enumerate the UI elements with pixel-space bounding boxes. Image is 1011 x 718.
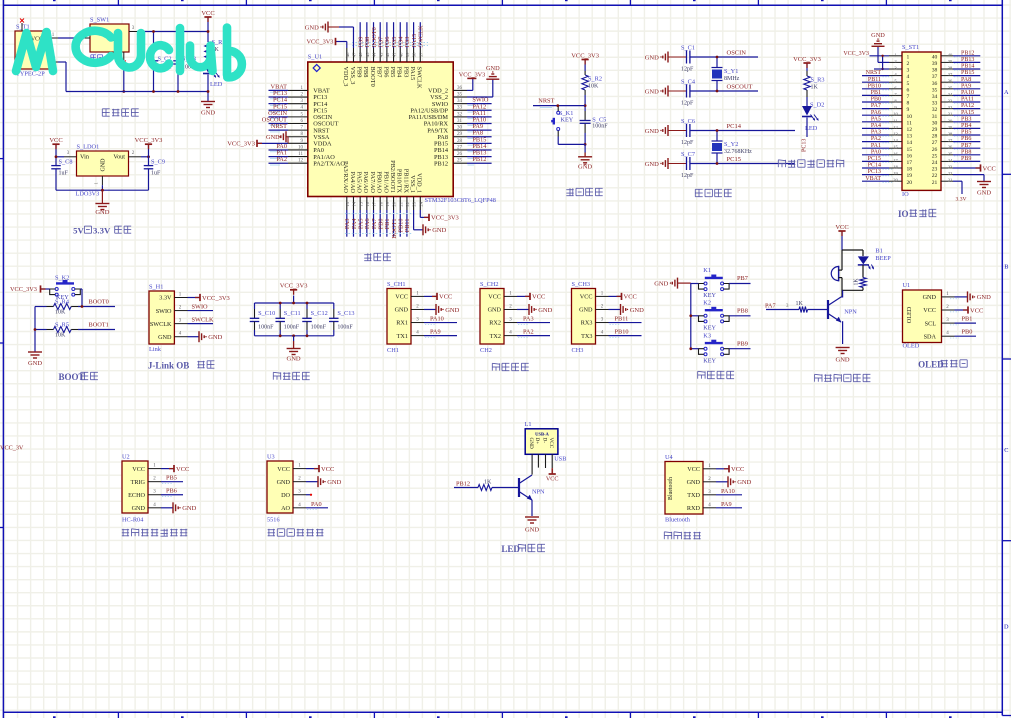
svg-text:14: 14 bbox=[352, 201, 357, 206]
svg-text:12pF: 12pF bbox=[681, 173, 694, 179]
svg-text:PA5/AO: PA5/AO bbox=[356, 172, 363, 194]
svg-text:22: 22 bbox=[405, 201, 410, 206]
svg-text:BEEP: BEEP bbox=[875, 255, 891, 262]
svg-text:PB8: PB8 bbox=[362, 67, 369, 78]
svg-text:GND: GND bbox=[528, 438, 534, 449]
svg-text:C: C bbox=[1004, 447, 1008, 454]
svg-text:OSCOUT: OSCOUT bbox=[727, 84, 753, 91]
svg-text:KEY: KEY bbox=[703, 324, 716, 331]
svg-text:18: 18 bbox=[907, 167, 913, 173]
svg-text:PA6: PA6 bbox=[871, 110, 881, 116]
svg-text:1uF: 1uF bbox=[151, 171, 161, 177]
svg-text:12pF: 12pF bbox=[681, 101, 694, 107]
svg-text:S_C7: S_C7 bbox=[681, 151, 695, 158]
svg-text:K2: K2 bbox=[703, 299, 711, 306]
svg-text:PB5: PB5 bbox=[389, 67, 396, 78]
svg-text:VCC: VCC bbox=[687, 466, 700, 473]
svg-text:16: 16 bbox=[365, 201, 370, 206]
svg-text:PB2/BOOT1: PB2/BOOT1 bbox=[389, 160, 396, 193]
svg-text:PB1: PB1 bbox=[962, 316, 973, 323]
svg-text:GND: GND bbox=[101, 158, 107, 172]
svg-text:U1: U1 bbox=[903, 282, 911, 289]
svg-text:PA7: PA7 bbox=[765, 303, 776, 310]
svg-text:3.3V: 3.3V bbox=[159, 295, 172, 302]
svg-text:19: 19 bbox=[893, 171, 898, 176]
svg-text:S_CH3: S_CH3 bbox=[572, 281, 591, 288]
svg-text:KEY: KEY bbox=[703, 357, 716, 364]
svg-text:18: 18 bbox=[893, 165, 898, 170]
svg-text:27: 27 bbox=[948, 138, 953, 143]
svg-text:PB7: PB7 bbox=[737, 275, 748, 282]
svg-text:PB8: PB8 bbox=[961, 149, 971, 155]
svg-text:PB12: PB12 bbox=[434, 160, 448, 167]
svg-text:VSS_1: VSS_1 bbox=[409, 175, 416, 193]
svg-text:PA2: PA2 bbox=[276, 156, 287, 163]
svg-text:PB1/AO: PB1/AO bbox=[382, 171, 389, 193]
svg-text:GND: GND bbox=[654, 280, 668, 287]
svg-text:13: 13 bbox=[345, 201, 350, 206]
svg-text:39: 39 bbox=[405, 52, 410, 57]
svg-text:GND: GND bbox=[395, 307, 409, 314]
svg-text:VCC: VCC bbox=[970, 307, 983, 314]
svg-text:12: 12 bbox=[298, 159, 304, 164]
svg-text:VCC_3V3: VCC_3V3 bbox=[135, 137, 163, 144]
svg-text:PC14: PC14 bbox=[868, 163, 881, 169]
svg-text:19: 19 bbox=[907, 173, 913, 179]
svg-text:PB11: PB11 bbox=[404, 219, 411, 233]
svg-text:GND: GND bbox=[645, 161, 659, 168]
svg-text:36: 36 bbox=[457, 86, 463, 91]
svg-text:PB0/AO: PB0/AO bbox=[376, 171, 383, 193]
svg-text:NRST: NRST bbox=[538, 97, 554, 104]
svg-text:CH2: CH2 bbox=[480, 347, 492, 354]
svg-text:PA3/RX/AO: PA3/RX/AO bbox=[342, 161, 349, 193]
svg-text:GND: GND bbox=[432, 227, 446, 234]
svg-text:PB9: PB9 bbox=[737, 340, 748, 347]
svg-text:TXD: TXD bbox=[687, 492, 700, 499]
svg-text:VDD_3: VDD_3 bbox=[342, 67, 349, 87]
svg-text:USB: USB bbox=[554, 455, 566, 462]
svg-text:D: D bbox=[1004, 624, 1009, 631]
svg-text:10: 10 bbox=[893, 112, 898, 117]
svg-text:VCC_3V3: VCC_3V3 bbox=[10, 286, 37, 293]
svg-text:TYPEC-2P: TYPEC-2P bbox=[16, 71, 45, 78]
svg-text:41: 41 bbox=[392, 52, 397, 57]
svg-text:32: 32 bbox=[948, 105, 953, 110]
svg-text:PB6: PB6 bbox=[166, 488, 177, 495]
svg-text:SCL: SCL bbox=[925, 320, 937, 327]
svg-text:31: 31 bbox=[948, 112, 953, 117]
svg-text:100nF: 100nF bbox=[311, 325, 327, 331]
svg-text:RX1: RX1 bbox=[396, 320, 408, 327]
svg-text:19: 19 bbox=[385, 201, 390, 206]
svg-text:10K: 10K bbox=[588, 84, 599, 90]
svg-text:PA7/AO: PA7/AO bbox=[369, 172, 376, 194]
svg-text:ECHO: ECHO bbox=[128, 492, 145, 499]
svg-text:24: 24 bbox=[418, 201, 423, 206]
svg-text:GND: GND bbox=[687, 479, 701, 486]
svg-text:15: 15 bbox=[907, 147, 913, 153]
svg-text:8: 8 bbox=[907, 101, 910, 107]
svg-text:PA12: PA12 bbox=[961, 103, 974, 109]
svg-text:NPN: NPN bbox=[844, 309, 857, 316]
svg-text:31: 31 bbox=[932, 114, 938, 120]
svg-text:SWIO: SWIO bbox=[156, 308, 172, 315]
svg-text:VBAT: VBAT bbox=[865, 176, 881, 182]
svg-text:100nF: 100nF bbox=[592, 123, 608, 129]
svg-text:PC13: PC13 bbox=[802, 139, 808, 152]
svg-text:VCC: VCC bbox=[548, 438, 554, 449]
svg-text:Link: Link bbox=[149, 346, 162, 353]
svg-text:S_C1: S_C1 bbox=[681, 45, 695, 52]
svg-text:IO: IO bbox=[898, 209, 909, 219]
svg-text:GND: GND bbox=[923, 294, 937, 301]
svg-text:GND: GND bbox=[525, 527, 539, 534]
svg-text:PB10: PB10 bbox=[615, 329, 629, 336]
svg-text:21: 21 bbox=[932, 180, 938, 186]
svg-text:21: 21 bbox=[948, 178, 953, 183]
svg-text:GND: GND bbox=[977, 190, 991, 197]
svg-text:GND: GND bbox=[132, 505, 146, 512]
svg-text:PB9: PB9 bbox=[961, 156, 971, 162]
svg-text:S_Y1: S_Y1 bbox=[724, 68, 738, 75]
svg-text:8MHz: 8MHz bbox=[724, 76, 740, 82]
svg-text:S_C8: S_C8 bbox=[59, 159, 73, 166]
svg-text:NRST: NRST bbox=[271, 123, 287, 130]
svg-text:1: 1 bbox=[907, 54, 910, 60]
svg-text:PB6: PB6 bbox=[382, 67, 389, 78]
svg-text:VCC: VCC bbox=[546, 475, 559, 482]
svg-text:VSS_3: VSS_3 bbox=[349, 67, 356, 85]
svg-text:VCC_3V3: VCC_3V3 bbox=[307, 39, 334, 46]
svg-text:38: 38 bbox=[412, 52, 417, 57]
svg-text:PA10: PA10 bbox=[721, 488, 735, 495]
svg-text:S_C5: S_C5 bbox=[592, 116, 606, 123]
svg-text:GND: GND bbox=[645, 88, 659, 95]
svg-text:12: 12 bbox=[907, 127, 913, 133]
svg-text:GND: GND bbox=[488, 307, 502, 314]
svg-text:30: 30 bbox=[948, 118, 953, 123]
svg-text:PB10: PB10 bbox=[868, 83, 881, 89]
svg-text:AO: AO bbox=[281, 505, 290, 512]
svg-text:28: 28 bbox=[932, 134, 938, 140]
svg-text:GND: GND bbox=[158, 334, 172, 341]
svg-text:B: B bbox=[1004, 264, 1008, 271]
svg-text:15: 15 bbox=[893, 145, 898, 150]
svg-text:OLED: OLED bbox=[906, 306, 913, 323]
svg-text:S_LDO1: S_LDO1 bbox=[77, 144, 100, 151]
svg-text:PA11: PA11 bbox=[961, 97, 974, 103]
svg-text:PB3: PB3 bbox=[961, 116, 971, 122]
svg-text:SWCLK: SWCLK bbox=[150, 321, 172, 328]
svg-text:33: 33 bbox=[932, 101, 938, 107]
svg-text:VCC_3V: VCC_3V bbox=[0, 445, 24, 452]
svg-text:21: 21 bbox=[398, 201, 403, 206]
svg-text:PB0: PB0 bbox=[871, 97, 881, 103]
svg-text:26: 26 bbox=[457, 152, 463, 157]
svg-text:PA5: PA5 bbox=[871, 116, 881, 122]
svg-text:PA15: PA15 bbox=[961, 110, 974, 116]
svg-text:BOOT1: BOOT1 bbox=[89, 322, 109, 329]
svg-text:VCC_3V3: VCC_3V3 bbox=[459, 71, 485, 78]
svg-text:GND: GND bbox=[645, 128, 659, 135]
svg-text:PC15: PC15 bbox=[727, 156, 741, 163]
svg-text:14: 14 bbox=[893, 138, 898, 143]
svg-text:39: 39 bbox=[932, 61, 938, 67]
svg-text:S_SW1: S_SW1 bbox=[90, 17, 109, 24]
svg-text:38: 38 bbox=[932, 68, 938, 74]
svg-text:12pF: 12pF bbox=[681, 140, 694, 146]
svg-text:26: 26 bbox=[948, 145, 953, 150]
svg-text:PA3: PA3 bbox=[523, 316, 534, 323]
svg-text:37: 37 bbox=[932, 74, 938, 80]
svg-text:PB3: PB3 bbox=[402, 67, 409, 78]
svg-text:37: 37 bbox=[418, 52, 423, 57]
svg-text:VCC: VCC bbox=[395, 294, 408, 301]
svg-text:PB7: PB7 bbox=[961, 143, 971, 149]
svg-text:PB11/RX: PB11/RX bbox=[402, 169, 409, 194]
svg-text:VCC_3V3: VCC_3V3 bbox=[280, 283, 308, 290]
svg-text:VCC_3V3: VCC_3V3 bbox=[793, 56, 821, 63]
svg-text:PA3: PA3 bbox=[871, 130, 881, 136]
svg-text:23: 23 bbox=[412, 201, 417, 206]
svg-text:STM32F103C8T6_LQFP48: STM32F103C8T6_LQFP48 bbox=[425, 197, 496, 204]
svg-text:32: 32 bbox=[932, 107, 938, 113]
svg-text:40: 40 bbox=[948, 52, 953, 57]
svg-text:GND: GND bbox=[630, 307, 644, 314]
svg-text:S_H1: S_H1 bbox=[149, 284, 163, 291]
svg-text:PB11: PB11 bbox=[868, 77, 881, 83]
svg-text:PA10: PA10 bbox=[430, 316, 444, 323]
svg-text:Bluetooth: Bluetooth bbox=[665, 517, 691, 524]
svg-text:VCC: VCC bbox=[49, 137, 62, 144]
svg-text:24: 24 bbox=[948, 158, 953, 163]
svg-text:34: 34 bbox=[457, 99, 463, 104]
svg-text:VCC_3V3: VCC_3V3 bbox=[431, 215, 459, 222]
svg-text:TRIG: TRIG bbox=[131, 479, 146, 486]
svg-text:PA4: PA4 bbox=[871, 123, 881, 129]
svg-text:KEY: KEY bbox=[703, 292, 716, 299]
svg-text:S_C4: S_C4 bbox=[681, 79, 696, 86]
svg-text:PB9: PB9 bbox=[356, 67, 363, 78]
svg-text:GND: GND bbox=[538, 307, 552, 314]
svg-text:5: 5 bbox=[907, 81, 910, 87]
svg-text:GND: GND bbox=[305, 24, 319, 31]
svg-text:1K: 1K bbox=[811, 85, 819, 91]
svg-text:SWCLK: SWCLK bbox=[416, 67, 423, 89]
svg-text:Vout: Vout bbox=[113, 153, 125, 160]
svg-text:38: 38 bbox=[948, 66, 953, 71]
svg-text:PA1: PA1 bbox=[871, 143, 881, 149]
svg-text:B1: B1 bbox=[875, 248, 882, 255]
svg-text:1uF: 1uF bbox=[59, 171, 69, 177]
svg-text:VCC_3V3: VCC_3V3 bbox=[571, 52, 599, 59]
svg-text:17: 17 bbox=[893, 158, 898, 163]
svg-text:VCC_3V3: VCC_3V3 bbox=[843, 51, 869, 57]
svg-text:SWCLK: SWCLK bbox=[192, 317, 214, 324]
svg-text:40: 40 bbox=[932, 54, 938, 60]
svg-text:12pF: 12pF bbox=[681, 67, 694, 73]
svg-text:S_C9: S_C9 bbox=[151, 159, 165, 166]
svg-text:PB8: PB8 bbox=[737, 307, 748, 314]
svg-text:PA6/AO: PA6/AO bbox=[362, 172, 369, 194]
svg-text:GND: GND bbox=[208, 334, 222, 341]
svg-text:K3: K3 bbox=[703, 332, 711, 339]
svg-text:LED: LED bbox=[210, 81, 223, 88]
svg-text:48: 48 bbox=[345, 52, 350, 57]
svg-text:IO: IO bbox=[902, 191, 909, 198]
svg-text:L1: L1 bbox=[525, 421, 532, 428]
svg-text:VCC: VCC bbox=[532, 294, 545, 301]
svg-text:33: 33 bbox=[457, 106, 463, 111]
svg-text:44: 44 bbox=[372, 52, 377, 57]
svg-text:HC-R04: HC-R04 bbox=[122, 517, 144, 524]
svg-text:TX2: TX2 bbox=[490, 333, 501, 340]
svg-text:PB7: PB7 bbox=[376, 67, 383, 78]
svg-text:U2: U2 bbox=[122, 454, 130, 461]
svg-text:S_CH1: S_CH1 bbox=[387, 281, 406, 288]
svg-text:KEY: KEY bbox=[561, 117, 574, 124]
svg-text:GND: GND bbox=[579, 307, 593, 314]
svg-text:32: 32 bbox=[457, 112, 463, 117]
svg-text:PB12: PB12 bbox=[472, 156, 486, 163]
svg-text:10K: 10K bbox=[55, 310, 66, 316]
svg-text:S_C13: S_C13 bbox=[337, 310, 354, 317]
svg-text:VCC: VCC bbox=[835, 224, 848, 231]
svg-text:12: 12 bbox=[893, 125, 898, 130]
svg-text:USB-A: USB-A bbox=[535, 431, 549, 436]
svg-text:22: 22 bbox=[948, 171, 953, 176]
svg-text:OSCIN: OSCIN bbox=[727, 50, 747, 57]
svg-text:S_ST1: S_ST1 bbox=[902, 44, 919, 51]
svg-text:18: 18 bbox=[378, 201, 383, 206]
svg-text:1K: 1K bbox=[854, 278, 860, 286]
svg-text:39: 39 bbox=[948, 59, 953, 64]
svg-text:36: 36 bbox=[932, 81, 938, 87]
svg-text:VCC: VCC bbox=[983, 165, 996, 172]
svg-text:PB15: PB15 bbox=[961, 70, 974, 76]
svg-text:4: 4 bbox=[907, 74, 910, 80]
svg-text:VCC: VCC bbox=[624, 294, 637, 301]
svg-text:14: 14 bbox=[907, 140, 913, 146]
svg-text:45: 45 bbox=[365, 52, 370, 57]
svg-text:VCC: VCC bbox=[439, 294, 452, 301]
svg-text:35: 35 bbox=[457, 92, 463, 97]
svg-text:GND: GND bbox=[486, 65, 500, 72]
svg-text:GND: GND bbox=[871, 32, 885, 39]
svg-text:32.768KHz: 32.768KHz bbox=[724, 149, 752, 155]
svg-text:S_U1: S_U1 bbox=[308, 54, 322, 61]
svg-text:24: 24 bbox=[932, 160, 938, 166]
svg-text:PA10: PA10 bbox=[961, 90, 974, 96]
svg-text:CH3: CH3 bbox=[572, 347, 584, 354]
svg-text:S_C6: S_C6 bbox=[681, 118, 695, 125]
svg-text:PA2: PA2 bbox=[871, 136, 881, 142]
svg-text:35: 35 bbox=[948, 85, 953, 90]
svg-text:U4: U4 bbox=[665, 454, 674, 461]
svg-text:PB0: PB0 bbox=[962, 329, 973, 336]
svg-text:GND: GND bbox=[977, 294, 991, 301]
svg-text:LED: LED bbox=[501, 544, 520, 554]
svg-text:9: 9 bbox=[907, 107, 910, 113]
svg-text:Vin: Vin bbox=[80, 153, 89, 160]
svg-text:K1: K1 bbox=[703, 267, 711, 274]
svg-text:PB11: PB11 bbox=[615, 316, 629, 323]
svg-text:PA7: PA7 bbox=[871, 103, 881, 109]
svg-text:17: 17 bbox=[907, 160, 913, 166]
svg-text:GND: GND bbox=[277, 479, 291, 486]
svg-text:SWIO: SWIO bbox=[192, 304, 209, 311]
svg-text:TX1: TX1 bbox=[397, 333, 408, 340]
svg-text:16: 16 bbox=[893, 151, 898, 156]
svg-text:100nF: 100nF bbox=[337, 325, 353, 331]
svg-text:30: 30 bbox=[457, 126, 463, 131]
svg-text:31: 31 bbox=[457, 119, 463, 124]
svg-text:36: 36 bbox=[948, 79, 953, 84]
svg-text:OLED: OLED bbox=[903, 343, 920, 350]
svg-text:S_R2: S_R2 bbox=[588, 76, 602, 83]
svg-text:3.3V: 3.3V bbox=[956, 196, 967, 202]
svg-text:S_C10: S_C10 bbox=[258, 310, 275, 317]
svg-text:PC14: PC14 bbox=[727, 123, 742, 130]
svg-text:10: 10 bbox=[907, 114, 913, 120]
svg-text:27: 27 bbox=[932, 140, 938, 146]
svg-text:33: 33 bbox=[948, 99, 953, 104]
svg-text:7: 7 bbox=[907, 94, 910, 100]
svg-text:BOOT0: BOOT0 bbox=[89, 299, 109, 306]
svg-text:34: 34 bbox=[948, 92, 953, 97]
svg-text:GND: GND bbox=[836, 357, 850, 364]
svg-text:VCC_3V3: VCC_3V3 bbox=[227, 141, 255, 148]
svg-text:13: 13 bbox=[907, 134, 913, 140]
svg-text:Bluetooth: Bluetooth bbox=[668, 477, 674, 500]
svg-text:11: 11 bbox=[893, 118, 898, 123]
svg-text:NPN: NPN bbox=[532, 489, 545, 496]
svg-text:PB10/TX: PB10/TX bbox=[396, 169, 403, 194]
svg-text:PB5: PB5 bbox=[166, 475, 177, 482]
svg-text:10K: 10K bbox=[55, 333, 66, 339]
svg-text:RX3: RX3 bbox=[581, 320, 593, 327]
svg-text:29: 29 bbox=[457, 132, 463, 137]
svg-text:PA4/AO: PA4/AO bbox=[349, 172, 356, 194]
svg-text:20: 20 bbox=[907, 180, 913, 186]
svg-text:34: 34 bbox=[932, 94, 938, 100]
svg-text:PC13: PC13 bbox=[868, 169, 881, 175]
svg-text:47: 47 bbox=[352, 52, 357, 57]
svg-text:VCC: VCC bbox=[277, 466, 290, 473]
svg-text:VCC: VCC bbox=[731, 466, 744, 473]
svg-text:PB6: PB6 bbox=[961, 136, 971, 142]
svg-text:1K: 1K bbox=[796, 301, 804, 307]
svg-text:GND: GND bbox=[645, 54, 659, 61]
svg-text:27: 27 bbox=[457, 145, 463, 150]
svg-text:U3: U3 bbox=[267, 454, 275, 461]
svg-text:16: 16 bbox=[907, 153, 913, 159]
svg-text:PA0: PA0 bbox=[871, 149, 881, 155]
svg-text:PA2: PA2 bbox=[523, 329, 534, 336]
svg-text:VCC: VCC bbox=[201, 10, 214, 17]
svg-text:29: 29 bbox=[948, 125, 953, 130]
svg-text:VCC: VCC bbox=[488, 294, 501, 301]
svg-text:26: 26 bbox=[932, 147, 938, 153]
svg-text:46: 46 bbox=[358, 52, 363, 57]
svg-text:PA9: PA9 bbox=[961, 83, 971, 89]
svg-text:25: 25 bbox=[932, 153, 938, 159]
svg-text:100nF: 100nF bbox=[284, 325, 300, 331]
svg-text:VDD_1: VDD_1 bbox=[416, 173, 423, 193]
svg-text:15: 15 bbox=[358, 201, 363, 206]
svg-text:6: 6 bbox=[907, 87, 910, 93]
